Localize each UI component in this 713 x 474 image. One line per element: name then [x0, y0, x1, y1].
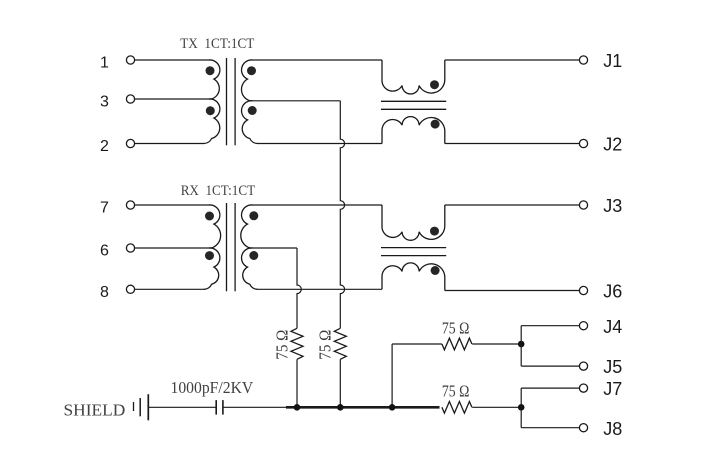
- wire choke L2 to J3: [445, 204, 580, 206]
- choke L2 lower winding: [382, 263, 445, 291]
- wire pin 6 to T2 primary: [135, 247, 212, 249]
- svg-text:J4: J4: [603, 317, 622, 337]
- choke L2 core: [381, 248, 446, 256]
- resistor R2 75ohm: [334, 328, 346, 359]
- wire bus riser to R3: [392, 344, 442, 407]
- transformer T2 primary winding lower half: [204, 248, 220, 289]
- node bus-R3 junction: [389, 404, 396, 411]
- wire choke L1 to J2: [445, 143, 580, 145]
- label SHIELD: [64, 400, 126, 419]
- svg-text:75 Ω: 75 Ω: [442, 381, 470, 400]
- choke L1 core: [381, 101, 446, 109]
- wire pin 8 to T2 primary: [135, 288, 205, 290]
- label J5: [603, 357, 622, 377]
- node J4/J5 junction: [518, 341, 525, 348]
- svg-text:J1: J1: [603, 51, 622, 71]
- label J8: [603, 419, 622, 439]
- wire junction down to J8: [521, 407, 579, 427]
- label J6: [603, 282, 622, 302]
- wire junction down to J5: [521, 344, 579, 366]
- pin 6 terminal: [126, 244, 134, 252]
- label J2: [603, 135, 622, 155]
- wire junction up to J4: [521, 326, 579, 344]
- svg-text:6: 6: [100, 243, 109, 260]
- svg-text:2: 2: [100, 138, 109, 155]
- wire T1 center tap down to R2 (hops J2,J3,J6 lines): [340, 101, 344, 328]
- transformer T1 secondary polarity dot upper: [247, 66, 256, 75]
- svg-text:TX 1CT:1CT: TX 1CT:1CT: [180, 36, 254, 52]
- wire T2 secondary bottom to choke L2: [257, 288, 382, 290]
- svg-text:J8: J8: [603, 419, 622, 439]
- svg-text:RX 1CT:1CT: RX 1CT:1CT: [181, 183, 255, 199]
- wire junction up to J7: [521, 388, 579, 407]
- transformer T2 secondary winding lower half: [242, 248, 258, 289]
- svg-text:3: 3: [100, 94, 109, 111]
- svg-text:J2: J2: [603, 135, 622, 155]
- wire choke L2 to J6: [445, 290, 580, 292]
- terminal J1: [579, 56, 587, 64]
- transformer T1 label: [180, 36, 254, 52]
- pin 6 label: [100, 243, 109, 260]
- svg-text:J7: J7: [603, 379, 622, 399]
- label R1 75 Ohm: [272, 330, 291, 360]
- pin 7 label: [100, 200, 109, 217]
- label R2 75 Ohm: [316, 330, 335, 360]
- transformer T1 primary polarity dot lower: [206, 106, 215, 115]
- capacitor C1: [216, 400, 223, 415]
- transformer T2 core: [227, 203, 236, 291]
- terminal J8: [579, 424, 587, 432]
- terminal J4: [579, 322, 587, 330]
- wire choke L1 to J1: [445, 59, 580, 61]
- transformer T1 primary polarity dot upper: [206, 66, 215, 75]
- terminal J5: [579, 362, 587, 370]
- pin 8 label: [100, 284, 109, 301]
- wire T2 center tap down to R1 (hops J6 line): [297, 248, 301, 328]
- label C1 1000pF/2KV: [171, 378, 254, 397]
- transformer T2 primary winding upper half: [209, 205, 221, 248]
- pin 3 terminal: [126, 95, 134, 103]
- transformer T2 primary polarity dot lower: [205, 251, 214, 260]
- wire T2 secondary center tap: [250, 247, 298, 249]
- svg-text:75 Ω: 75 Ω: [272, 330, 291, 360]
- wire T1 secondary center tap: [250, 100, 341, 102]
- shield terminal bars: [134, 394, 149, 420]
- transformer T1 secondary winding upper half: [241, 60, 252, 101]
- wire T2 secondary top to choke L2: [252, 204, 382, 206]
- transformer T1 primary winding lower half: [204, 99, 220, 144]
- label J7: [603, 379, 622, 399]
- ground bus (bold): [286, 406, 440, 409]
- pin 2 terminal: [126, 139, 134, 147]
- wire pin 3 to T1 primary: [135, 98, 212, 100]
- label J4: [603, 317, 622, 337]
- label R3 75 Ohm: [442, 318, 470, 337]
- resistor R4 75ohm: [442, 401, 472, 413]
- wire pin 1 to T1 primary: [135, 59, 210, 61]
- transformer T2 secondary polarity dot lower: [249, 251, 258, 260]
- svg-text:75 Ω: 75 Ω: [316, 330, 335, 360]
- wire pin 2 to T1 primary: [135, 143, 205, 145]
- transformer T1 secondary polarity dot lower: [248, 106, 257, 115]
- wire T1 secondary top to choke L1: [252, 59, 382, 61]
- wire pin 7 to T2 primary: [135, 204, 210, 206]
- choke L2 polarity dot upper: [430, 227, 439, 236]
- svg-text:1000pF/2KV: 1000pF/2KV: [171, 378, 254, 397]
- choke L1 upper winding: [382, 60, 445, 94]
- choke L1 polarity dot lower: [431, 120, 440, 129]
- label J1: [603, 51, 622, 71]
- transformer T2 secondary polarity dot upper: [249, 211, 258, 220]
- choke L1 polarity dot upper: [430, 80, 439, 89]
- wire R2 to ground bus: [339, 359, 341, 407]
- choke L1 lower winding: [382, 117, 445, 144]
- choke L2 upper winding: [382, 205, 445, 240]
- resistor R3 75ohm: [442, 338, 472, 350]
- terminal J7: [579, 384, 587, 392]
- terminal J3: [579, 201, 587, 209]
- svg-text:J5: J5: [603, 357, 622, 377]
- wire R4 to J7/J8 junction: [472, 406, 521, 408]
- pin 1 terminal: [126, 56, 134, 64]
- label R4 75 Ohm: [442, 381, 470, 400]
- svg-text:75 Ω: 75 Ω: [442, 318, 470, 337]
- wire R3 to J4/J5 junction: [472, 343, 521, 345]
- pin 1 label: [100, 55, 109, 72]
- node bus-R1 junction: [294, 404, 301, 411]
- pin 7 terminal: [126, 201, 134, 209]
- svg-text:J3: J3: [603, 196, 622, 216]
- label J3: [603, 196, 622, 216]
- transformer T2 label: [181, 183, 255, 199]
- svg-text:J6: J6: [603, 282, 622, 302]
- transformer T1 core: [227, 58, 236, 145]
- wire shield to C1: [148, 406, 216, 408]
- pin 2 label: [100, 138, 109, 155]
- pin 3 label: [100, 94, 109, 111]
- svg-text:1: 1: [100, 55, 109, 72]
- node J7/J8 junction: [518, 404, 525, 411]
- wire C1 to ground bus: [223, 406, 287, 408]
- transformer T2 primary polarity dot upper: [205, 212, 214, 221]
- wire T1 secondary bottom to choke L1: [257, 143, 382, 145]
- resistor R1 75ohm: [291, 328, 303, 359]
- transformer T1 secondary winding lower half: [242, 101, 258, 144]
- terminal J6: [579, 286, 587, 294]
- transformer T1 primary winding upper half: [209, 60, 220, 99]
- wire R1 to ground bus: [296, 359, 298, 407]
- terminal J2: [579, 139, 587, 147]
- svg-text:8: 8: [100, 284, 109, 301]
- svg-text:SHIELD: SHIELD: [64, 400, 126, 419]
- choke L2 polarity dot lower: [431, 266, 440, 275]
- svg-text:7: 7: [100, 200, 109, 217]
- transformer T2 secondary winding upper half: [241, 205, 253, 248]
- pin 8 terminal: [126, 285, 134, 293]
- node bus-R2 junction: [337, 404, 344, 411]
